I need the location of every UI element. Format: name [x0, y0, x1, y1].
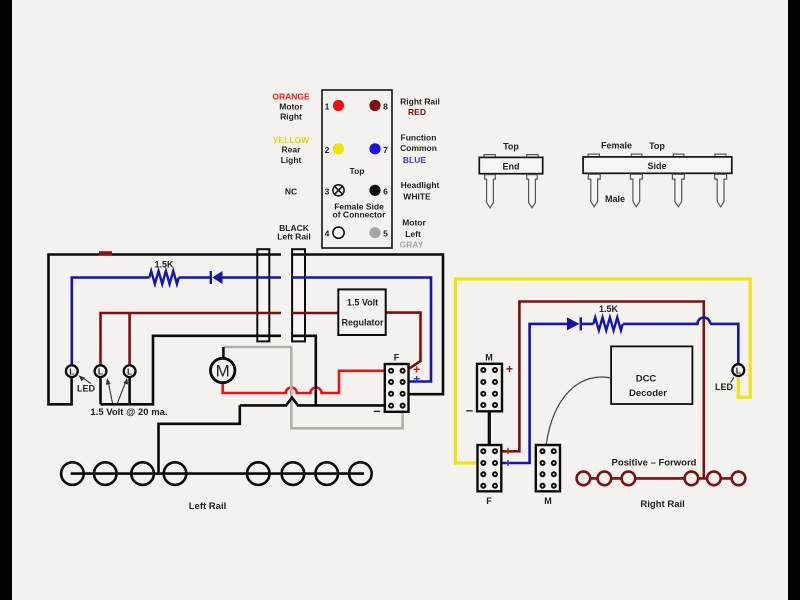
- svg-text:LED: LED: [77, 384, 96, 394]
- side-view pin 1: [588, 174, 600, 207]
- resistor R2 1.5K: [593, 317, 622, 330]
- svg-text:Regulator: Regulator: [341, 318, 384, 328]
- svg-text:BLUE: BLUE: [403, 155, 426, 165]
- black link M1 to F2: [488, 411, 491, 445]
- resistor R1 1.5K: [149, 271, 178, 284]
- svg-text:5: 5: [383, 229, 388, 239]
- svg-text:F: F: [486, 496, 492, 506]
- svg-text:Left Rail: Left Rail: [277, 232, 311, 242]
- pin 5 (gray): [369, 227, 380, 238]
- connector body (female side of connector): [322, 90, 392, 248]
- left black border strip: [0, 0, 12, 600]
- dark red wire (regulator feed): [101, 313, 421, 371]
- connector F1: [385, 364, 409, 412]
- svg-text:+: +: [413, 372, 420, 386]
- svg-text:+: +: [506, 362, 513, 376]
- side-view connector body: [583, 157, 732, 173]
- svg-text:Motor: Motor: [402, 218, 426, 228]
- side-view tab 1: [588, 154, 599, 157]
- svg-text:M: M: [485, 353, 493, 363]
- svg-text:4: 4: [325, 229, 330, 239]
- pin 8 (red): [369, 100, 380, 111]
- svg-text:F: F: [394, 353, 400, 363]
- svg-text:+: +: [504, 456, 511, 470]
- pin 4 (open): [333, 227, 344, 238]
- right rail wheels: [577, 477, 746, 480]
- svg-text:NC: NC: [285, 186, 297, 196]
- side-view pin 4: [715, 174, 727, 207]
- connector M1: [477, 364, 502, 412]
- motor M1: [211, 358, 235, 382]
- svg-text:Motor: Motor: [279, 102, 303, 112]
- svg-text:L: L: [736, 365, 741, 375]
- pin 2 (yellow): [333, 143, 344, 154]
- svg-text:Male: Male: [605, 194, 625, 204]
- svg-text:M: M: [216, 362, 230, 381]
- svg-text:Female: Female: [601, 141, 632, 151]
- red motor wire with hops: [223, 371, 385, 393]
- diode D2: [567, 317, 581, 330]
- thin lead from decoder to connector M2: [546, 377, 611, 444]
- svg-text:3: 3: [325, 186, 330, 196]
- svg-text:Positive – Forword: Positive – Forword: [612, 458, 697, 469]
- svg-text:Common: Common: [400, 143, 437, 153]
- pin 6 (black): [369, 185, 380, 196]
- svg-text:Top: Top: [350, 166, 365, 176]
- svg-text:Rear: Rear: [282, 145, 302, 155]
- svg-text:1.5 Volt @ 20 ma.: 1.5 Volt @ 20 ma.: [90, 407, 167, 418]
- pin 1 (orange): [333, 100, 344, 111]
- side-view pin 3: [672, 174, 684, 207]
- black stub motor top: [222, 347, 225, 359]
- end-view connector tab right: [527, 155, 538, 158]
- LED 1: [66, 365, 78, 377]
- svg-text:8: 8: [383, 102, 388, 112]
- yellow wire loop: [455, 279, 750, 463]
- gray motor-left wire: [223, 347, 402, 428]
- svg-text:L: L: [98, 366, 103, 376]
- svg-text:Left: Left: [405, 229, 421, 239]
- right black border strip: [788, 0, 800, 600]
- dark red tick on top wire: [99, 251, 112, 255]
- svg-text:2: 2: [325, 145, 330, 155]
- svg-text:1.5K: 1.5K: [599, 304, 619, 314]
- svg-text:ORANGE: ORANGE: [272, 92, 310, 102]
- DCC decoder box: [611, 346, 692, 404]
- svg-text:7: 7: [383, 145, 388, 155]
- svg-text:M: M: [544, 496, 552, 506]
- svg-text:RED: RED: [408, 107, 426, 117]
- connector M2: [536, 445, 560, 491]
- svg-text:–: –: [466, 403, 473, 418]
- rail gap bar 1: [257, 249, 269, 341]
- svg-text:WHITE: WHITE: [403, 192, 431, 202]
- svg-text:1: 1: [325, 102, 330, 112]
- svg-text:Headlight: Headlight: [401, 180, 440, 190]
- connector F2: [478, 445, 502, 491]
- svg-text:Left Rail: Left Rail: [189, 501, 226, 512]
- blue wire with diode, resistor, hop: [495, 318, 738, 464]
- svg-text:Top: Top: [503, 142, 519, 152]
- svg-text:1.5 Volt: 1.5 Volt: [347, 298, 378, 308]
- svg-text:Top: Top: [649, 141, 665, 151]
- svg-text:Function: Function: [401, 133, 437, 143]
- LED 3: [124, 365, 136, 377]
- svg-text:1.5K: 1.5K: [154, 260, 174, 270]
- end-view pin 2: [527, 175, 538, 208]
- end-view pin 1: [485, 175, 496, 208]
- dark red wire (right rail feed): [495, 302, 704, 479]
- svg-text:L: L: [127, 366, 132, 376]
- LED right: [732, 364, 744, 376]
- svg-text:LED: LED: [715, 382, 734, 392]
- regulator box: [338, 289, 385, 335]
- side-view tab 3: [673, 154, 684, 157]
- svg-text:Side: Side: [647, 161, 666, 171]
- svg-text:GRAY: GRAY: [400, 240, 424, 250]
- blue wire (rear light): [72, 278, 431, 382]
- svg-text:YELLOW: YELLOW: [273, 135, 310, 145]
- svg-text:Right Rail: Right Rail: [400, 97, 440, 107]
- left rail wheels: [71, 472, 364, 475]
- pin 3 (NC, circle with X): [333, 185, 344, 196]
- black outline wire (left rail loop): [49, 255, 444, 405]
- svg-text:–: –: [373, 403, 380, 418]
- end-view connector body: [479, 157, 542, 173]
- svg-text:Right: Right: [280, 112, 302, 122]
- side-view pin 2: [630, 174, 642, 207]
- svg-text:L: L: [69, 366, 74, 376]
- side-view tab 2: [631, 154, 642, 157]
- svg-text:End: End: [503, 162, 520, 172]
- svg-text:Decoder: Decoder: [629, 388, 667, 399]
- pin 7 (blue): [369, 143, 380, 154]
- rail gap bar 2: [292, 249, 305, 341]
- diode D1: [211, 271, 223, 284]
- svg-text:DCC: DCC: [636, 374, 657, 385]
- black mid bus wires: [101, 336, 385, 474]
- svg-text:of Connector: of Connector: [333, 210, 387, 220]
- end-view connector tab left: [484, 155, 495, 158]
- svg-text:Right Rail: Right Rail: [640, 499, 684, 510]
- svg-text:Light: Light: [281, 155, 302, 165]
- side-view tab 4: [715, 154, 726, 157]
- LED 2: [95, 365, 107, 377]
- svg-text:6: 6: [383, 186, 388, 196]
